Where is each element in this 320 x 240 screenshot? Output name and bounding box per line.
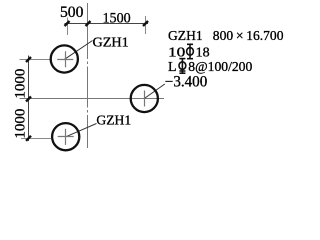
svg-text:1500: 1500 (103, 10, 131, 26)
centerline (vertical dash-dot axis) (87, 3, 89, 148)
left dimension line (vertical) (28, 56, 30, 142)
top dimension line (65, 23, 149, 25)
extension line left (x=67) (67, 18, 69, 36)
rebar symbol HRB (line2) (187, 44, 194, 59)
tick at 500 left (65, 21, 70, 26)
extension line top row (20, 59, 51, 61)
leader line bottom pile (66, 124, 97, 137)
extension line bottom row (21, 138, 51, 140)
svg-text:500: 500 (60, 4, 84, 21)
rebar symbol HRB (line3) (179, 58, 186, 73)
pile circle top (GZH1) (51, 45, 78, 72)
tick bottom (26, 136, 31, 141)
tick at 1500 right (143, 21, 148, 26)
svg-text:1000: 1000 (13, 69, 29, 99)
pile circle right (131, 85, 158, 112)
leader line top pile (65, 41, 93, 60)
cross of bottom pile (58, 129, 74, 145)
tick middle (26, 97, 31, 102)
leader line right pile (144, 84, 165, 99)
svg-text:18: 18 (196, 46, 210, 61)
cross of top pile (57, 51, 73, 67)
main horizontal axis line (20, 98, 165, 100)
svg-text:GZH1: GZH1 (96, 113, 131, 128)
svg-text:GZH1: GZH1 (93, 34, 129, 49)
tick at 500/1500 junction (86, 21, 91, 26)
svg-text:1000: 1000 (13, 109, 29, 139)
svg-text:GZH1 800 × 16.700: GZH1 800 × 16.700 (168, 29, 284, 44)
svg-text:−3.400: −3.400 (165, 73, 208, 90)
extension line right (x=145.5) (145, 16, 147, 34)
pile circle bottom (GZH1) (52, 123, 79, 150)
tick top (1000 upper end) (26, 57, 31, 62)
cross of right pile (vertical arm; horizontal is axis) (144, 91, 146, 107)
